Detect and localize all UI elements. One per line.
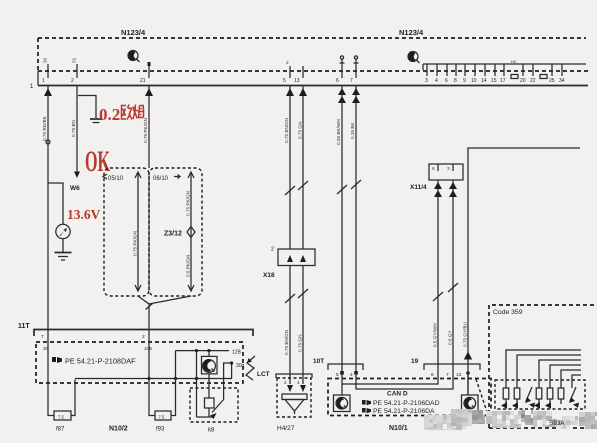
wire inside 05/10 (135, 172, 141, 291)
wires X11/4 down to N10/1 pins 6,7 (434, 180, 457, 378)
voltmeter symbol (56, 224, 70, 252)
svg-text:0.75 GN: 0.75 GN (298, 122, 303, 139)
svg-text:10B: 10B (144, 346, 152, 351)
svg-text:W6: W6 (70, 185, 80, 192)
wire label 0.75 BN (71, 120, 76, 137)
resistor element 1 (501, 388, 509, 409)
wire label 0.75 PK/GN (143, 118, 148, 143)
label N10/2 (109, 426, 128, 433)
svg-text:2: 2 (71, 78, 74, 84)
resistor element 6 (558, 388, 564, 404)
svg-text:5: 5 (336, 372, 339, 378)
svg-text:S93A: S93A (549, 420, 565, 427)
svg-text:3: 3 (447, 166, 450, 171)
wire pin2 stub down (74, 86, 80, 179)
svg-text:0.75 GY/BU: 0.75 GY/BU (463, 321, 468, 347)
svg-text:1: 1 (42, 78, 45, 84)
svg-text:2: 2 (286, 60, 289, 65)
label CAN D (387, 391, 408, 398)
svg-text:30: 30 (43, 57, 48, 63)
PE reference label N10/2 (52, 357, 136, 366)
svg-text:0.5 PK/GN: 0.5 PK/GN (186, 255, 191, 277)
svg-text:0.75 GN: 0.75 GN (298, 335, 303, 352)
svg-text:0.75 BN/GN: 0.75 BN/GN (284, 330, 289, 355)
svg-text:4: 4 (435, 78, 438, 84)
svg-text:11T: 11T (18, 323, 30, 330)
resistor pack S93A dashed box (495, 380, 585, 409)
connector bracket 10T (313, 358, 363, 378)
connector X11/4 (410, 164, 463, 191)
svg-text:CAN D: CAN D (387, 391, 408, 398)
fan wires to blower resistor pack (506, 350, 581, 388)
svg-text:LCT: LCT (257, 371, 270, 378)
wire inside 06/10 (188, 172, 194, 291)
sleeve connector box 05/10 (103, 168, 149, 296)
fuse f93 (155, 411, 171, 433)
switch element 7 (569, 387, 579, 408)
label k8 (208, 428, 215, 434)
svg-text:7: 7 (350, 78, 353, 84)
svg-text:Z3/12: Z3/12 (164, 231, 182, 238)
branch to relay switch (224, 361, 234, 399)
control unit N123/4 top dashed border (38, 38, 586, 71)
label N123/4 left (121, 28, 146, 37)
svg-text:H4/27: H4/27 (277, 425, 295, 432)
svg-text:3: 3 (425, 78, 428, 84)
resistor element 4 (534, 388, 542, 409)
corner wire 0.75 GY/BU (464, 148, 580, 395)
interruption zigzag arrow (246, 356, 255, 380)
fuse f87 (54, 411, 71, 433)
svg-text:7: 7 (446, 372, 449, 378)
wires from pins 5,13 down to connector X18 (286, 86, 307, 250)
wire label 0.75 GY/BU (463, 321, 468, 347)
connector bracket 19 (411, 358, 480, 378)
svg-text:X11/4: X11/4 (410, 184, 427, 191)
relay ladder vertical (196, 351, 198, 417)
wire label 0.75 PK/GN inside 06/10 (186, 191, 191, 216)
svg-text:0.35 BK/WH: 0.35 BK/WH (336, 119, 341, 145)
svg-text:0.5 GY/WH: 0.5 GY/WH (433, 323, 438, 347)
svg-text:N10/1: N10/1 (389, 425, 408, 432)
label S93A (549, 420, 565, 427)
svg-text:PE 54.21-P-2106DA: PE 54.21-P-2106DA (373, 408, 435, 415)
svg-text:06/10: 06/10 (153, 176, 169, 182)
svg-text:0.75 PK/GN: 0.75 PK/GN (186, 191, 191, 216)
relay contact symbol box (202, 351, 218, 374)
wire label 0.75 PK/GN inside 05/10 (133, 231, 138, 256)
PE reference labels N10/1 (362, 400, 440, 415)
label W6 (70, 185, 80, 192)
pin 6 stub (336, 56, 345, 84)
merge wires below sleeves (138, 296, 191, 329)
label N123/4 right (399, 28, 424, 37)
red annotation 0.2 ohm (99, 105, 144, 125)
pin 1 (42, 57, 48, 84)
svg-text:f93: f93 (156, 427, 165, 433)
pin 13 (294, 66, 303, 84)
svg-text:0.5 GY: 0.5 GY (448, 330, 453, 345)
svg-text:10: 10 (471, 78, 477, 84)
svg-text:12B: 12B (232, 350, 242, 356)
svg-text:N123/4: N123/4 (399, 28, 424, 37)
svg-text:OK: OK (85, 145, 110, 178)
CAN controller N10/1 dashed box (328, 379, 491, 416)
branch to voltmeter W6 (48, 183, 63, 224)
wire labels 0.35 BK/WH and 0.35 BK (336, 119, 355, 145)
wire pin1 to 11T pin7 (44, 86, 52, 330)
switch element 3 (525, 387, 535, 408)
svg-text:6: 6 (336, 78, 339, 84)
resistor element 2 (512, 388, 520, 409)
wire pin21 down to sleeve box (145, 86, 153, 169)
coordinate symbol right (408, 51, 420, 63)
SAM control unit N10/2 dashed box (36, 342, 243, 383)
svg-text:7.5: 7.5 (159, 415, 165, 420)
label H4/27 (277, 425, 295, 432)
CAN transceiver symbol right (462, 373, 479, 412)
svg-text:21: 21 (140, 78, 146, 84)
horn H4/27 dashed box (277, 378, 311, 417)
comb pins 3..34 (425, 64, 565, 84)
internal rail (75, 377, 232, 380)
label 30g (236, 363, 245, 369)
svg-text:13: 13 (294, 78, 300, 84)
svg-text:f87: f87 (56, 427, 65, 433)
wire labels 0.5 GY/WH and 0.5 GY (433, 323, 453, 347)
wire break slashes CAN pair (337, 180, 361, 194)
connector bracket LCT (257, 371, 312, 392)
svg-text:25: 25 (549, 78, 555, 84)
resistor element 5 (545, 388, 553, 409)
watermark mosaic band (424, 409, 597, 430)
svg-text:2: 2 (271, 247, 274, 253)
red annotation 13.6V (67, 207, 101, 222)
svg-text:34: 34 (559, 78, 565, 84)
CAN transceiver symbol left (334, 384, 351, 412)
CAN bus lines inside N10/1 (342, 373, 453, 389)
wire label 0.5 PK/GN (186, 255, 191, 277)
wire pin2 to fuse f93 (149, 342, 155, 416)
wire pin7 to fuse f87 (48, 342, 54, 416)
svg-text:0.35 BK: 0.35 BK (350, 121, 355, 139)
svg-text:9: 9 (463, 78, 466, 84)
wire break slashes below X18 (285, 289, 308, 303)
comb header line right (423, 59, 586, 70)
wire break slashes X11/4 pair (433, 283, 458, 301)
pin 2 of 11T (142, 330, 152, 352)
svg-text:N123/4: N123/4 (121, 28, 146, 37)
svg-text:5: 5 (283, 78, 286, 84)
wire break slashes above X18 (285, 181, 308, 195)
svg-text:6: 6 (431, 372, 434, 378)
svg-text:0.75 PK/GN: 0.75 PK/GN (143, 118, 148, 143)
pin 21 (140, 62, 151, 84)
pin 5 (283, 60, 290, 84)
relay k8 internals (197, 374, 224, 419)
wire label 0.75 RD/BK (42, 115, 47, 141)
svg-text:0.75 RD/BK: 0.75 RD/BK (42, 115, 47, 141)
svg-text:17: 17 (500, 78, 506, 84)
pin 7 stub (350, 56, 359, 84)
horn symbol (282, 394, 307, 414)
svg-text:0.75 PK/GN: 0.75 PK/GN (133, 231, 138, 256)
connector X18 (263, 247, 315, 280)
splice Z3/12 (164, 227, 195, 238)
ground symbol 0.2 ohm (90, 119, 102, 123)
branch wire to ground 0.2 ohm (78, 96, 96, 119)
svg-text:19: 19 (411, 358, 419, 365)
svg-text:0.75 BN/GN: 0.75 BN/GN (284, 118, 289, 143)
sleeve connector box 06/10 (149, 168, 202, 296)
wire labels lower 0.75 BN/GN and 0.75 GN (284, 330, 303, 355)
svg-text:X18: X18 (263, 272, 275, 279)
riser and relay feed line (176, 349, 242, 379)
svg-text:8: 8 (454, 78, 457, 84)
wire fuse f87 to rail (71, 380, 75, 416)
relay k8 dashed box (190, 388, 238, 422)
svg-text:13: 13 (456, 372, 462, 378)
svg-text:HC: HC (511, 59, 517, 64)
svg-text:0.2: 0.2 (99, 105, 120, 124)
svg-text:PE 54.21-P-2106DAD: PE 54.21-P-2106DAD (373, 400, 440, 407)
svg-text:PE 54.21-P-2108DAF: PE 54.21-P-2108DAF (65, 357, 136, 366)
svg-text:0.75 BN: 0.75 BN (71, 120, 76, 137)
ground symbol W6 (55, 253, 72, 261)
svg-text:Code 359: Code 359 (493, 309, 523, 316)
svg-text:22: 22 (530, 78, 536, 84)
svg-text:15: 15 (491, 78, 497, 84)
svg-text:14: 14 (481, 78, 487, 84)
connector row dashed line (38, 70, 588, 72)
bus bar line (30, 71, 588, 90)
svg-text:30g: 30g (236, 363, 245, 369)
svg-text:05/10: 05/10 (108, 176, 124, 182)
svg-text:7.5: 7.5 (58, 415, 64, 420)
svg-text:13.6V: 13.6V (67, 207, 101, 222)
pin 2 (71, 57, 77, 84)
coordinate symbol left (128, 50, 140, 62)
svg-text:4: 4 (350, 372, 353, 378)
svg-text:20: 20 (520, 78, 526, 84)
svg-text:k8: k8 (208, 428, 215, 434)
dashed divider inside N10/1 (476, 379, 487, 412)
svg-text:10T: 10T (313, 358, 324, 365)
svg-text:2: 2 (142, 334, 145, 340)
label N10/1 (389, 425, 408, 432)
pin 7 of 11T (41, 330, 49, 352)
wire labels 0.75 BN/GN and 0.75 GN (284, 118, 303, 143)
svg-text:31: 31 (72, 57, 77, 63)
wire fuse f93 to rail (171, 379, 176, 416)
red annotation OK (85, 145, 110, 178)
CAN wires pins 6,7 down to N10/1 (338, 86, 360, 374)
connector bracket 11T (18, 323, 253, 336)
svg-text:6: 6 (445, 78, 448, 84)
svg-text:N10/2: N10/2 (109, 426, 128, 433)
svg-text:6: 6 (432, 166, 435, 171)
svg-text:7: 7 (41, 334, 44, 340)
wires X18 down to horn H4/27 (290, 266, 303, 385)
Code 359 dashed box (489, 305, 597, 428)
